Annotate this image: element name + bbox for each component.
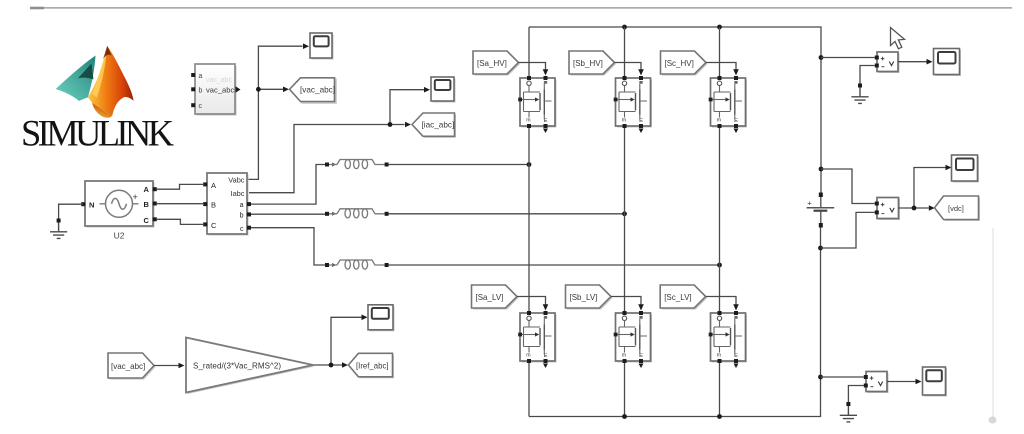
three-phase VI measurement block [203, 173, 251, 236]
node rail above battery [819, 167, 824, 172]
wire to gain [154, 365, 179, 367]
wire N to ground [59, 204, 83, 218]
goto tag [vdc] [935, 196, 981, 221]
svg-text:[Sb_LV]: [Sb_LV] [570, 293, 598, 302]
svg-text:[Sa_HV]: [Sa_HV] [477, 59, 507, 68]
svg-text:b: b [240, 213, 244, 220]
node V2 out [912, 206, 917, 211]
arrow into scope1 [303, 43, 309, 49]
from tag [Sa_LV] [472, 285, 519, 310]
node rail top [819, 55, 824, 60]
voltmeter V1 [875, 52, 900, 73]
goto tag [vac_abc] [290, 78, 337, 103]
svg-text:C: C [144, 216, 150, 225]
svg-text:vac_abc: vac_abc [206, 85, 234, 94]
node bottom bus C [717, 414, 722, 419]
wire b to L2 [251, 213, 325, 215]
arrow into goto vac_abc [283, 87, 289, 93]
svg-text:A: A [144, 185, 150, 194]
from tag [Sc_LV] [660, 285, 707, 310]
wire Iabc to iac_abc [249, 125, 405, 193]
scope Scope1 [310, 33, 334, 60]
svg-text:vac_abc: vac_abc [206, 77, 233, 84]
scope Scope5 [368, 305, 395, 332]
wire Vabc riser [247, 46, 303, 179]
svg-text:C: C [211, 221, 217, 230]
wire U2.B to meas [157, 203, 203, 205]
svg-text:c: c [240, 226, 244, 233]
svg-text:[vac_abc]: [vac_abc] [111, 362, 145, 371]
svg-text:Vabc: Vabc [228, 176, 245, 185]
from tag [Sa_HV] [473, 51, 520, 76]
svg-text:Iabc: Iabc [231, 189, 245, 198]
svg-text:B: B [144, 200, 150, 209]
faint scrollbar line [992, 228, 994, 418]
transistor Q4 (Sa low) [518, 311, 556, 368]
scope Scope2 [431, 77, 456, 103]
wire V2 branch to scope [914, 168, 946, 209]
wire to V1 plus [821, 57, 875, 59]
node Vabc branch [256, 87, 261, 92]
wire phase A [389, 164, 529, 166]
ground G3 [840, 402, 857, 422]
wire to V2 minus [821, 212, 875, 248]
node top bus C [717, 25, 722, 30]
svg-text:[Sc_HV]: [Sc_HV] [665, 59, 694, 68]
wire to V2 plus [821, 169, 875, 204]
wire to V3 plus [821, 376, 864, 378]
svg-text:c: c [199, 103, 203, 110]
inductor L2 [325, 209, 389, 218]
wire Vabc to goto [258, 88, 283, 90]
svg-text:a: a [199, 73, 203, 80]
svg-text:+: + [133, 192, 138, 202]
svg-text:A: A [211, 181, 216, 190]
svg-text:[iac_abc]: [iac_abc] [422, 121, 455, 130]
svg-text:U2: U2 [114, 231, 125, 241]
svg-text:[vdc]: [vdc] [948, 204, 964, 213]
wire a to L1 [251, 165, 325, 205]
svg-text:B: B [211, 201, 216, 210]
wire Sc_LV gate [706, 297, 736, 305]
voltage source U2 [81, 181, 157, 241]
top separator line [30, 7, 1012, 10]
wire V1 out [898, 61, 927, 63]
voltmeter V3 [864, 372, 889, 394]
transistor Q1 (Sa high) [518, 76, 556, 133]
wire leg C [719, 27, 721, 417]
wire branch to scope2 [390, 90, 424, 125]
arrow into scope2 [424, 87, 430, 93]
svg-text:+: + [807, 199, 812, 208]
from tag [Sc_HV] [661, 51, 708, 76]
svg-text:a: a [240, 202, 244, 209]
scope ScopeV2 [952, 155, 980, 183]
svg-text:SIMULINK: SIMULINK [21, 113, 174, 154]
wire leg B [624, 27, 626, 417]
node bottom bus B [622, 414, 627, 419]
from tag [Sb_LV] [566, 285, 613, 310]
wire gain out [313, 364, 342, 366]
wire Sc_HV gate [706, 63, 736, 70]
inductor L3 [325, 260, 389, 269]
wire V2 out [899, 207, 929, 209]
transistor Q6 (Sc low) [709, 311, 747, 368]
transistor Q5 (Sb low) [614, 311, 652, 368]
svg-text:S_rated/(3*Vac_RMS^2): S_rated/(3*Vac_RMS^2) [193, 361, 281, 370]
wire phase C [389, 264, 720, 266]
goto tag [iac_abc] [412, 113, 456, 138]
node phase C junction [717, 263, 722, 268]
ground G2 [851, 84, 868, 104]
node top bus B [622, 25, 627, 30]
Simulink logo membrane [56, 46, 134, 118]
wire U2.A to meas [157, 184, 203, 189]
mouse cursor [891, 28, 905, 49]
voltmeter V2 [875, 198, 900, 221]
svg-text:[Sc_LV]: [Sc_LV] [664, 293, 691, 302]
wire DC+ top bus [529, 27, 821, 193]
ground G1 [50, 219, 67, 239]
wire branch to scope5 [331, 317, 362, 365]
svg-text:[Sb_HV]: [Sb_HV] [573, 59, 603, 68]
wire U2.C to meas [157, 219, 203, 224]
wire Sb_HV gate [615, 63, 642, 70]
wire V3 minus to ground [848, 386, 863, 403]
transistor Q3 (Sc high) [709, 76, 747, 133]
node phase B junction [622, 211, 627, 216]
from tag [vac_abc] [108, 353, 156, 380]
transistor Q2 (Sb high) [614, 76, 652, 133]
gain K1 [186, 338, 315, 395]
wire phase B [389, 213, 625, 215]
node gain out [329, 363, 334, 368]
subsystem vac_abc [191, 64, 240, 116]
node rail below battery [818, 246, 823, 251]
node rail bottom [818, 375, 823, 380]
wire V1 minus to ground [860, 66, 875, 84]
scope ScopeV1 [934, 49, 962, 77]
wire c to L3 [251, 228, 325, 265]
inductor L1 [325, 160, 389, 169]
svg-text:[vac_abc]: [vac_abc] [300, 86, 335, 95]
arrow into goto iac_abc [405, 122, 411, 128]
wire Sb_LV gate [611, 297, 641, 305]
node phase A junction [527, 162, 532, 167]
svg-text:[Sa_LV]: [Sa_LV] [476, 293, 504, 302]
wire Sa_HV gate [519, 63, 546, 70]
wire V3 out [887, 381, 916, 383]
svg-text:[Iref_abc]: [Iref_abc] [356, 361, 389, 370]
svg-text:b: b [199, 87, 203, 94]
svg-text:N: N [89, 200, 94, 209]
wire leg A [528, 27, 530, 417]
battery DC source [807, 193, 835, 228]
node iac branch [388, 122, 393, 127]
wire Sa_LV gate [517, 297, 546, 305]
goto tag [Iref_abc] [348, 353, 394, 378]
scope ScopeV3 [923, 367, 948, 397]
wire DC- bottom bus [529, 227, 821, 417]
from tag [Sb_HV] [569, 51, 616, 76]
